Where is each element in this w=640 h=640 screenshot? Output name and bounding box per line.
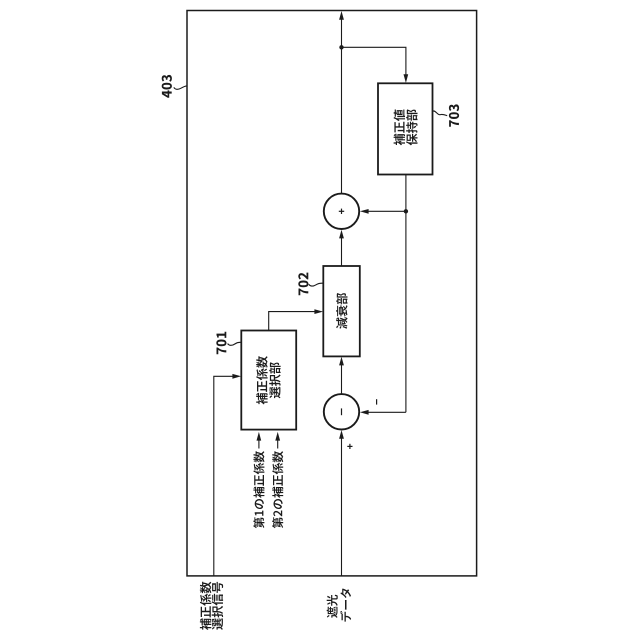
wire: subtractor top to 702 bottom [339, 357, 344, 395]
wire: 703 bottom down to subtractor level [405, 175, 407, 413]
wire: 1st coefficient input arrow [257, 432, 262, 449]
box U703 correction-value holding unit [378, 83, 433, 174]
box U702 attenuation unit [323, 266, 360, 356]
junction dot on output line [339, 45, 343, 49]
wire: into subtractor right [360, 410, 406, 415]
external label 補正係数 (select signal line1) [200, 582, 211, 630]
label 701 [216, 332, 226, 354]
external label 選択信号 (select signal line2) [212, 582, 223, 630]
plus sign inside adder [339, 209, 344, 214]
label 403 [162, 75, 172, 98]
box 703 text line1 補正値 [394, 110, 405, 146]
wire: 2nd coefficient input arrow [275, 432, 280, 449]
box U701 correction-coefficient selection unit [241, 331, 296, 430]
wire: shading data input up into subtractor [339, 430, 344, 576]
wire: 702 top to adder bottom [339, 230, 344, 266]
label 702 [298, 273, 308, 296]
input label 第1の補正係数 [253, 451, 264, 528]
leader squiggle for 701 [228, 342, 242, 345]
subtractor circle (minus) [324, 394, 359, 429]
external label 遮光 (shading data line1) [327, 595, 338, 618]
leader squiggle for 403 [174, 86, 187, 89]
leader squiggle for 702 [309, 283, 323, 286]
outer block boundary 403 [187, 11, 477, 576]
label 703 [449, 104, 459, 126]
wire: feedback from output junction to 703 top [342, 47, 409, 83]
box 701 text line1 補正係数 [256, 356, 267, 404]
box 702 text 減衰部 [336, 293, 347, 329]
external label データ (shading data line2) [340, 588, 351, 621]
box 701 text line2 選択部 [269, 362, 280, 398]
wire: coefficient select signal into 701 left [214, 374, 241, 576]
input label 第2の補正係数 [272, 451, 283, 528]
wire: branch into adder right [360, 209, 406, 214]
adder circle (plus) [324, 194, 359, 229]
minus sign inside subtractor (rotated) [341, 408, 343, 415]
plus sign label on subtractor bottom input [347, 444, 352, 449]
box 703 text line2 保持部 [406, 109, 417, 145]
wire: 701 top to 702 left [269, 309, 323, 330]
wire: adder output up to boundary top [339, 11, 344, 194]
junction dot on 703 output line [404, 209, 408, 213]
minus sign label on subtractor right input [376, 399, 378, 404]
leader squiggle for 703 [433, 111, 447, 116]
